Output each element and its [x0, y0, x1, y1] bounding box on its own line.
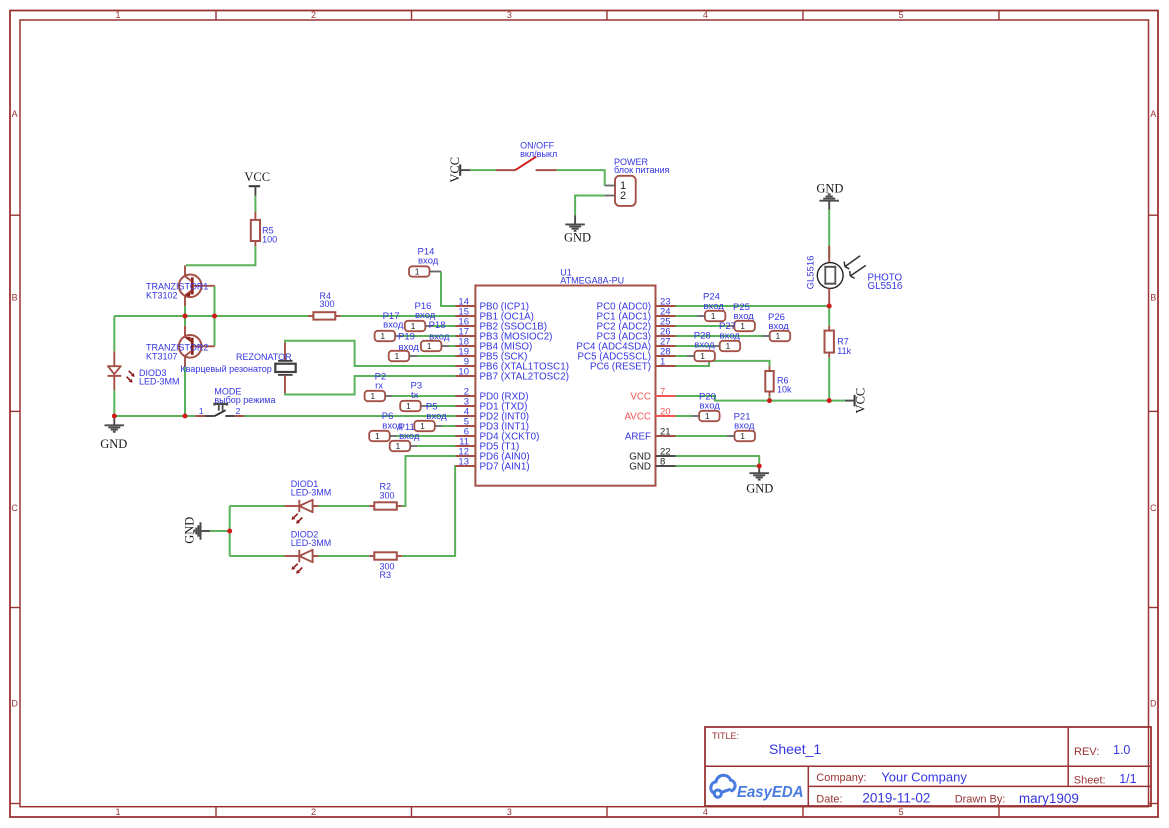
- svg-text:1: 1: [199, 406, 204, 416]
- U1 pin 9 PB6 (XTAL1TOSC1): [456, 357, 569, 373]
- svg-text:1: 1: [427, 342, 432, 351]
- svg-text:1: 1: [371, 392, 376, 401]
- wire POWER pin 2 to GND: [575, 196, 605, 216]
- svg-text:1: 1: [396, 442, 401, 451]
- svg-text:GND: GND: [629, 461, 651, 472]
- svg-text:2019-11-02: 2019-11-02: [862, 791, 930, 806]
- connector POWER (блок питания): [605, 157, 670, 206]
- svg-text:вход: вход: [720, 331, 741, 342]
- power VCC (rotated, before ON/OFF): [448, 157, 470, 183]
- svg-text:R7: R7: [837, 337, 849, 347]
- wire R7 bottom to VCC rail: [828, 357, 830, 400]
- wire gnd top to photoresistor: [828, 210, 830, 259]
- svg-text:REV:: REV:: [1074, 746, 1099, 758]
- wire VCC top to R5: [254, 196, 256, 212]
- svg-text:A: A: [1150, 109, 1156, 119]
- svg-text:вход: вход: [418, 256, 439, 267]
- svg-text:C: C: [1150, 503, 1157, 513]
- svg-text:A: A: [12, 109, 18, 119]
- wire U1 pin 7 VCC to VCC rail: [676, 396, 846, 401]
- wire R2 to U1 pin 12: [402, 456, 456, 506]
- connector P27: [713, 321, 741, 351]
- svg-text:20: 20: [660, 407, 671, 418]
- svg-text:LED-3MM: LED-3MM: [291, 538, 332, 548]
- svg-text:блок питания: блок питания: [614, 165, 669, 175]
- U1 pin 1 PC6 (RESET): [590, 357, 675, 373]
- U1 pin 28 PC5 (ADC5SCL): [578, 347, 676, 363]
- wire left rail down to DIOD3: [113, 316, 115, 351]
- ground GND (rotated, left of LED junction): [183, 517, 211, 544]
- wire R6 bottom to VCC rail: [769, 396, 771, 401]
- svg-text:1: 1: [415, 268, 420, 277]
- svg-text:4: 4: [703, 807, 708, 817]
- svg-text:AREF: AREF: [625, 431, 651, 442]
- node junction base column / row16: [212, 314, 217, 319]
- resistor R6: [765, 366, 792, 396]
- wire U1 pin 23 to photoresistor junction: [676, 305, 830, 307]
- wire gnd junction column LED1-LED2: [229, 506, 231, 556]
- svg-text:2: 2: [311, 10, 316, 20]
- svg-text:REZONATOR: REZONATOR: [236, 352, 292, 362]
- svg-text:1/1: 1/1: [1119, 772, 1136, 786]
- svg-text:100: 100: [262, 235, 277, 245]
- svg-text:1: 1: [740, 322, 745, 331]
- svg-text:Sheet:: Sheet:: [1074, 775, 1106, 787]
- svg-text:вход: вход: [383, 319, 404, 330]
- wire P14 to U1 pin 14: [441, 272, 456, 307]
- connector P25: [727, 302, 755, 331]
- wire U1 pin 27 to P27: [676, 345, 713, 347]
- ground GND (below POWER): [564, 215, 591, 244]
- svg-text:2: 2: [620, 190, 626, 202]
- svg-text:1: 1: [395, 352, 400, 361]
- connector P28: [687, 331, 715, 362]
- node junction photoresistor / pin23: [827, 304, 832, 309]
- node junction R7 / VCC rail: [827, 398, 832, 403]
- svg-text:1: 1: [700, 352, 705, 361]
- svg-text:GND: GND: [100, 437, 127, 451]
- wire main row y316: left rail to R4: [114, 315, 308, 317]
- photoresistor GL5516: [806, 246, 903, 306]
- diode DIOD3 LED-3MM: [107, 351, 179, 390]
- svg-text:mary1909: mary1909: [1019, 791, 1079, 806]
- svg-text:2: 2: [236, 406, 241, 416]
- U1 pin 5 PD3 (INT1): [456, 417, 530, 433]
- resistor R5: [251, 212, 277, 246]
- node junction left rail / bottom rail: [112, 414, 117, 419]
- connector P17: [375, 311, 456, 341]
- svg-text:R3: R3: [380, 570, 392, 580]
- svg-text:7: 7: [660, 387, 665, 398]
- connector P3: [400, 381, 455, 412]
- diode DIOD2 LED-3MM: [285, 530, 332, 574]
- svg-text:ATMEGA8A-PU: ATMEGA8A-PU: [560, 275, 624, 285]
- U1 pin 26 PC3 (ADC3): [597, 327, 676, 343]
- U1 pin 19 PB5 (SCK): [456, 347, 528, 363]
- wire U1 pin 1 RESET to R6: [676, 361, 770, 366]
- svg-text:1: 1: [420, 422, 425, 431]
- svg-text:P19: P19: [398, 331, 415, 342]
- transistor Q2 TRANZISTOR2 KT3107: [146, 326, 215, 367]
- wire U1 pin 28 to P28: [676, 355, 688, 357]
- svg-text:KT3107: KT3107: [146, 351, 178, 361]
- svg-text:AVCC: AVCC: [625, 411, 652, 422]
- svg-text:Your Company: Your Company: [881, 770, 967, 785]
- connector P20: [692, 392, 720, 422]
- wire photoresistor to R7: [828, 306, 830, 326]
- ground GND (top, above photoresistor): [816, 182, 843, 210]
- svg-text:LED-3MM: LED-3MM: [291, 487, 332, 497]
- U1 pin 17 PB3 (MOSIOC2): [456, 327, 553, 343]
- wire DIOD1 chain: gnd junction to LED1: [230, 505, 285, 507]
- resistor R2: [369, 482, 402, 510]
- wire U1 pin 25 to P25: [676, 325, 728, 327]
- connector P11: [390, 422, 456, 451]
- svg-text:PC6 (RESET): PC6 (RESET): [590, 361, 651, 372]
- wire R3 to U1 pin 13: [402, 466, 456, 556]
- U1 pin 10 PB7 (XTAL2TOSC2): [456, 367, 569, 383]
- power VCC (top, above R5): [244, 170, 270, 196]
- svg-text:3: 3: [507, 10, 512, 20]
- svg-text:tx: tx: [411, 390, 419, 401]
- svg-text:4: 4: [703, 10, 708, 20]
- svg-text:GL5516: GL5516: [868, 281, 903, 292]
- svg-text:1: 1: [406, 402, 411, 411]
- node junction LED gnd split: [227, 529, 232, 534]
- svg-text:VCC: VCC: [854, 388, 868, 414]
- resistor R3: [369, 552, 402, 580]
- op-amp U1 ATMEGA8A-PU body: [475, 267, 655, 485]
- svg-text:Company:: Company:: [816, 772, 866, 784]
- node junction R6 / VCC rail: [767, 398, 772, 403]
- connector P14: [409, 247, 441, 277]
- wire U1 pin 20 AVCC to P20: [676, 415, 693, 417]
- svg-text:1: 1: [381, 332, 386, 341]
- switch MODE (выбор режима): [195, 386, 275, 416]
- wire LED1 to R2: [318, 505, 369, 507]
- svg-text:10k: 10k: [777, 384, 792, 394]
- wire VCC to ON/OFF switch: [470, 169, 496, 171]
- wire U1 pin 21 AREF to P21: [676, 435, 728, 437]
- svg-text:5: 5: [898, 10, 903, 20]
- U1 pin 7 VCC: [630, 387, 675, 403]
- title block: [705, 727, 1151, 806]
- svg-text:21: 21: [660, 427, 671, 438]
- ground GND (right of U1, pins 22/8): [746, 466, 773, 495]
- svg-text:вход: вход: [694, 340, 715, 351]
- connector P26: [762, 312, 790, 341]
- svg-text:1: 1: [740, 432, 745, 441]
- switch ON/OFF (вкл/выкл): [496, 141, 557, 171]
- U1 pin 12 PD6 (AIN0): [456, 447, 530, 463]
- U1 pin 3 PD1 (TXD): [456, 397, 528, 413]
- svg-text:C: C: [11, 503, 18, 513]
- wire R5 bottom to T1 collector: [186, 246, 255, 265]
- svg-text:D: D: [1150, 699, 1157, 709]
- U1 pin 23 PC0 (ADC0): [597, 297, 676, 313]
- U1 pin 15 PB1 (OC1A): [456, 307, 534, 323]
- node junction T2 emitter / bottom rail: [183, 414, 188, 419]
- U1 pin 18 PB4 (MISO): [456, 337, 533, 353]
- svg-text:вкл/выкл: вкл/выкл: [520, 149, 557, 159]
- svg-text:Sheet_1: Sheet_1: [769, 741, 821, 757]
- svg-text:EasyEDA: EasyEDA: [737, 784, 804, 801]
- connector P2: [365, 371, 456, 401]
- svg-text:D: D: [11, 699, 18, 709]
- svg-text:1: 1: [115, 807, 120, 817]
- U1 pin 21 AREF: [625, 427, 676, 443]
- wire DIOD3 to bottom rail: [113, 390, 115, 416]
- svg-text:вход: вход: [734, 421, 755, 432]
- connector P5: [414, 401, 455, 431]
- connector P6: [369, 411, 455, 441]
- svg-text:VCC: VCC: [244, 170, 270, 184]
- U1 pin 24 PC1 (ADC1): [597, 307, 676, 323]
- U1 pin 11 PD5 (T1): [456, 437, 520, 453]
- svg-text:GND: GND: [746, 481, 773, 495]
- svg-text:VCC: VCC: [630, 391, 651, 402]
- wire crystal top to U1 pin 9: [285, 341, 456, 366]
- svg-text:13: 13: [458, 457, 469, 468]
- svg-text:1: 1: [726, 342, 731, 351]
- EasyEDA logo: [711, 775, 804, 801]
- U1 pin 14 PB0 (ICP1): [456, 297, 530, 313]
- svg-text:PB7 (XTAL2TOSC2): PB7 (XTAL2TOSC2): [480, 371, 569, 382]
- svg-text:GL5516: GL5516: [806, 256, 817, 290]
- U1 pin 27 PC4 (ADC4SDA): [576, 337, 675, 353]
- svg-text:300: 300: [380, 490, 395, 500]
- U1 pin 6 PD4 (XCKT0): [456, 427, 540, 443]
- wire T1 emitter to junction: [184, 306, 186, 316]
- wire bottom rail to MODE pin1: [114, 415, 195, 417]
- svg-text:1: 1: [375, 432, 380, 441]
- wire MODE pin2 to U1 pin 4: [244, 415, 455, 417]
- svg-text:B: B: [12, 293, 18, 303]
- svg-text:1: 1: [711, 312, 716, 321]
- ground GND (bottom left rail): [100, 416, 127, 451]
- U1 pin 13 PD7 (AIN1): [456, 457, 530, 473]
- transistor Q1 TRANZISTOR1 KT3102: [146, 265, 215, 306]
- svg-text:Drawn By:: Drawn By:: [955, 794, 1006, 806]
- svg-text:P18: P18: [429, 320, 446, 331]
- connector P24: [697, 292, 725, 322]
- svg-text:LED-3MM: LED-3MM: [139, 377, 180, 387]
- U1 pin 22 GND: [629, 447, 675, 463]
- connector P16: [405, 301, 456, 331]
- U1 pin 16 PB2 (SSOC1B): [456, 317, 548, 333]
- svg-text:выбор режима: выбор режима: [214, 395, 275, 405]
- power VCC (rotated, right of VCC rail): [845, 388, 868, 414]
- resistor R7: [825, 326, 852, 358]
- connector P19: [389, 331, 456, 361]
- svg-text:KT3102: KT3102: [146, 290, 178, 300]
- svg-text:8: 8: [660, 457, 665, 468]
- node junction GND pins 22-8: [757, 464, 762, 469]
- node junction T1 emitter / rail: [183, 314, 188, 319]
- svg-text:Date:: Date:: [816, 794, 842, 806]
- svg-text:GND: GND: [564, 230, 591, 244]
- svg-text:1: 1: [705, 412, 710, 421]
- svg-text:11k: 11k: [837, 346, 851, 356]
- svg-text:5: 5: [898, 807, 903, 817]
- crystal REZONATOR: [180, 342, 295, 393]
- svg-text:3: 3: [507, 807, 512, 817]
- U1 pin 2 PD0 (RXD): [456, 387, 529, 403]
- wire U1 pin 24 to P24: [676, 315, 698, 317]
- U1 pin 4 PD2 (INT0): [456, 407, 530, 423]
- resistor R4: [308, 291, 341, 320]
- wire crystal bottom to U1 pin 10: [285, 376, 456, 395]
- svg-text:10: 10: [458, 367, 469, 378]
- U1 pin 25 PC2 (ADC2): [597, 317, 676, 333]
- connector P21: [727, 412, 755, 442]
- svg-text:1.0: 1.0: [1113, 743, 1130, 757]
- wire LED2 chain to R3: [230, 555, 285, 557]
- svg-text:PD7 (AIN1): PD7 (AIN1): [480, 461, 530, 472]
- svg-text:2: 2: [311, 807, 316, 817]
- svg-text:1: 1: [411, 322, 416, 331]
- svg-text:300: 300: [320, 299, 335, 309]
- U1 pin 8 GND: [629, 457, 675, 473]
- svg-text:вход: вход: [700, 401, 721, 412]
- wire gnd stub to junction: [210, 530, 230, 532]
- diode DIOD1 LED-3MM: [285, 479, 332, 524]
- svg-text:B: B: [1150, 293, 1156, 303]
- wire ON/OFF to POWER pin 1: [557, 170, 605, 185]
- svg-text:TITLE:: TITLE:: [712, 731, 739, 741]
- wire R4 to U1 pin 15: [341, 315, 456, 317]
- U1 pin 20 AVCC: [625, 407, 676, 423]
- svg-text:Кварцевый резонатор: Кварцевый резонатор: [180, 364, 271, 374]
- wire U1 pin 8 GND to gnd: [676, 465, 760, 467]
- svg-text:1: 1: [115, 10, 120, 20]
- svg-text:GND: GND: [183, 517, 197, 544]
- wire U1 pin 26 to P26: [676, 335, 763, 337]
- connector P18: [421, 320, 456, 351]
- wire T1 base column: [214, 286, 216, 347]
- wire junction to T2 collector: [184, 316, 186, 326]
- wire U1 pin 22 GND down: [676, 456, 760, 466]
- svg-text:1: 1: [660, 357, 665, 368]
- wire T2 emitter to bottom rail: [184, 367, 186, 416]
- svg-text:1: 1: [776, 332, 781, 341]
